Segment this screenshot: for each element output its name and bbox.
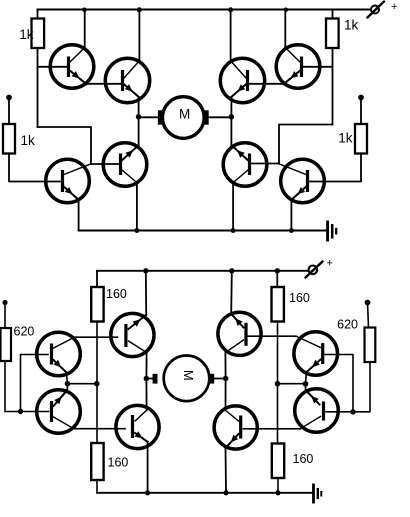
wire: bottom circuit ground rail xyxy=(97,492,313,494)
node: R8 at ground rail xyxy=(275,490,280,495)
ground symbol (bottom circuit) xyxy=(314,484,322,504)
node: T8 emitter at ground rail xyxy=(289,228,294,233)
transistor T3 (lower outer left) xyxy=(46,159,91,203)
wire: motor right terminal to node xyxy=(214,378,225,380)
wire: R8 to ground rail xyxy=(277,478,279,493)
wire: Q1 emitter to emitter node xyxy=(66,372,67,383)
wire: Q3 emitter up to emitter node xyxy=(66,384,68,391)
transistor T2 (upper inner left) xyxy=(105,58,149,102)
terminal input left (bottom circuit) xyxy=(2,300,7,305)
wire: T6 base xyxy=(304,66,333,68)
wire: T6 emitter to T5 base xyxy=(250,83,285,85)
wire: T7 base xyxy=(252,163,279,165)
node: Q7 emitter at ground rail xyxy=(223,490,228,495)
transistor T6 (upper outer right) xyxy=(276,45,320,89)
node: Q5 emitter at ground rail xyxy=(145,490,150,495)
wire: Q5 emitter to ground rail xyxy=(147,442,149,493)
svg-text:620: 620 xyxy=(14,325,35,339)
wire: motor right terminal to right node xyxy=(209,116,232,118)
wire: node to motor left terminal xyxy=(146,378,152,380)
svg-text:160: 160 xyxy=(106,287,127,301)
svg-text:+: + xyxy=(391,1,397,13)
wire: R1 down, across to node, down to T3 collector / T4 base xyxy=(38,127,92,164)
wire: Q6 base to Q4 collector xyxy=(248,335,297,337)
svg-text:1k: 1k xyxy=(21,133,36,148)
wire: T1 base xyxy=(38,66,67,68)
node: rail junction right 160 resistor xyxy=(275,268,280,273)
svg-text:+: + xyxy=(327,258,333,270)
transistor Q7 (inner right bottom) xyxy=(214,406,257,449)
node: T4 collector at ground rail xyxy=(134,228,139,233)
node: right base junction xyxy=(350,409,355,414)
wire: R10 down and left to base node xyxy=(326,362,370,412)
resistor R1 1k (top left) xyxy=(32,10,45,128)
resistor R2 1k (top right) xyxy=(326,10,339,125)
transistor Q8 (outer right bottom) xyxy=(295,389,339,433)
wire: base node up to Q1 base xyxy=(21,355,49,412)
ground symbol (top circuit) xyxy=(328,221,337,242)
node: right outer emitter junction xyxy=(303,381,309,387)
resistor R6 160 (upper right) xyxy=(272,271,284,444)
resistor R10 620 (right) xyxy=(365,303,376,363)
svg-text:160: 160 xyxy=(289,291,310,305)
wire: T6 collector to rail xyxy=(284,10,286,48)
wire: T1 emitter to T2 base xyxy=(86,83,121,85)
svg-text:160: 160 xyxy=(293,452,314,466)
node: resistor chain junction left xyxy=(94,381,100,387)
wire: T7 collector to bottom rail xyxy=(232,183,234,231)
wire: Q7 base to Q8 collector xyxy=(244,428,301,430)
node: T7 collector at ground rail xyxy=(231,228,236,233)
resistor R7 160 (lower left) xyxy=(91,443,103,480)
wire: Q2 collector to motor node xyxy=(145,353,147,379)
wire: R2 down, across, down to T8 collector / T7 base xyxy=(279,125,333,164)
wire: R9 down and right to base node xyxy=(5,361,49,412)
node: rail junction inner-right column xyxy=(229,268,234,273)
wire: T2 emitter to motor node xyxy=(138,97,140,117)
motor M1 xyxy=(158,97,209,139)
node: motor right junction (bottom) xyxy=(223,376,229,382)
wire: base node up to Q4 base xyxy=(325,355,353,412)
wire: Q7 emitter to ground rail xyxy=(225,448,228,493)
resistor R3 1k (left input) xyxy=(3,98,15,154)
svg-text:1k: 1k xyxy=(344,18,359,33)
wire: T4 base xyxy=(91,163,118,165)
transistor Q1 (outer left top) xyxy=(37,332,81,376)
svg-text:620: 620 xyxy=(337,318,358,332)
wire: T3 emitter down to bottom rail xyxy=(78,200,80,230)
wire: T5 emitter to motor node xyxy=(230,97,232,117)
wire: T4 collector to bottom rail xyxy=(136,183,138,231)
wire: Q4 emitter to emitter node xyxy=(305,372,308,383)
wire: emitter node to resistor chain xyxy=(278,383,306,385)
transistor Q2 (inner left top) xyxy=(111,313,154,356)
wire: R3 to T3 base xyxy=(9,154,60,182)
node: rail junction T1 collector xyxy=(82,8,87,13)
transistor T1 (upper outer left) xyxy=(50,45,94,89)
node: resistor chain junction right xyxy=(275,381,281,387)
transistor T4 (lower inner left) xyxy=(103,143,147,187)
wire: T1 collector to rail xyxy=(84,10,86,48)
wire: T8 emitter down to bottom rail xyxy=(290,200,292,230)
transistor Q3 (outer left bottom) xyxy=(37,390,81,434)
wire: T2 collector to rail xyxy=(138,10,140,61)
node: motor right junction xyxy=(229,114,235,120)
transistor Q5 (inner left bottom) xyxy=(116,405,159,448)
node: rail junction T5 collector xyxy=(228,7,233,12)
resistor R4 1k (right input) xyxy=(355,98,367,154)
wire: Q2 emitter to rail xyxy=(145,271,147,315)
wire: Q7 collector to motor node xyxy=(225,379,227,411)
svg-text:1k: 1k xyxy=(19,27,34,42)
wire: T5 collector to rail xyxy=(230,10,232,61)
wire: node to motor left terminal xyxy=(139,116,159,118)
wire: R7 to ground rail corner xyxy=(96,480,98,493)
svg-text:1k: 1k xyxy=(338,131,353,146)
terminal +V (bottom circuit) xyxy=(306,258,333,278)
svg-text:M: M xyxy=(181,370,196,381)
node: motor left junction (bottom) xyxy=(144,376,150,382)
wire: Q8 emitter up to emitter node xyxy=(305,384,307,390)
transistor T7 (lower inner right) xyxy=(223,143,267,187)
transistor T8 (lower outer right) xyxy=(279,159,324,203)
transistor Q6 (inner right top) xyxy=(218,312,261,355)
resistor R9 620 (left) xyxy=(1,303,12,362)
terminal input left xyxy=(6,95,12,101)
wire: top circuit ground rail xyxy=(79,230,326,232)
wire: Q1 collector to Q2 base xyxy=(75,336,118,338)
wire: top positive supply rail xyxy=(38,9,371,11)
node: motor left junction xyxy=(136,114,142,120)
svg-text:160: 160 xyxy=(108,456,129,470)
terminal input right xyxy=(358,95,364,101)
wire: Q6 emitter to rail xyxy=(230,271,233,314)
terminal +V (top right) xyxy=(368,1,398,18)
resistor R8 160 (lower right) xyxy=(272,444,284,479)
resistor R5 160 (upper left) xyxy=(91,271,103,443)
node: left base junction xyxy=(18,409,23,414)
transistor Q4 (outer right top) xyxy=(294,332,338,376)
wire: R4 to T8 base xyxy=(310,154,361,182)
terminal input right (bottom circuit) xyxy=(365,300,371,306)
svg-text:M: M xyxy=(179,107,190,122)
wire: Q3 collector to Q5 base xyxy=(74,428,125,430)
wire: bottom circuit positive rail xyxy=(97,270,309,272)
node: rail junction T2 collector xyxy=(137,7,142,12)
wire: emitter node to resistor chain xyxy=(68,383,97,385)
node: rail junction inner-left column xyxy=(143,268,148,273)
wire: motor node down to T4 emitter xyxy=(138,117,140,145)
wire: Q5 collector to motor node xyxy=(145,378,147,410)
wire: Q6 collector to motor node xyxy=(224,353,226,379)
node: rail junction T6 collector xyxy=(284,8,289,13)
wire: motor node down to T7 emitter xyxy=(230,117,232,145)
motor M2 xyxy=(153,356,215,402)
node: left outer emitter junction xyxy=(65,381,71,387)
transistor T5 (upper inner right) xyxy=(220,58,264,102)
